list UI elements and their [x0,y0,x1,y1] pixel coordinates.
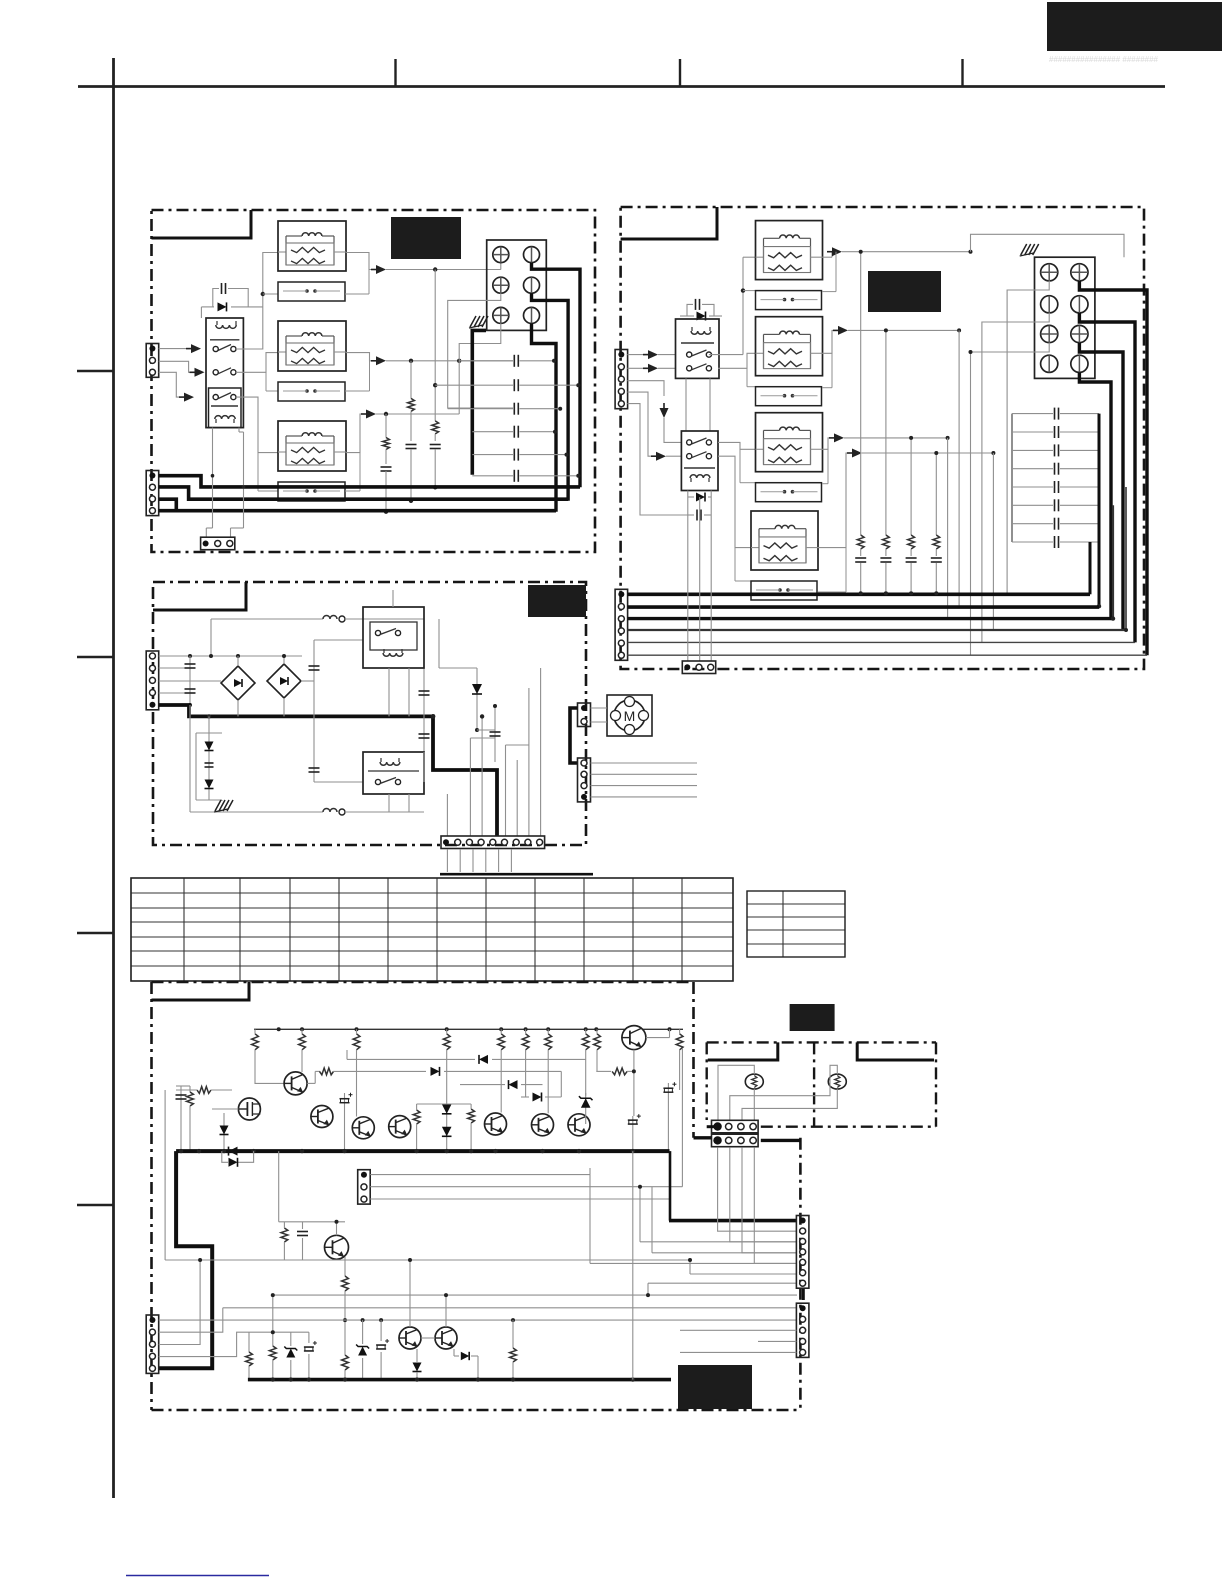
mid resistors [413,1110,420,1124]
relay RY-P2 box [363,752,424,794]
input network [197,1087,211,1094]
output diodes [416,1349,418,1362]
rail resistors [252,1034,259,1050]
thick AC feed [159,705,497,836]
speaker network A3 [278,421,346,471]
wire relay B1 to unit B1 [709,354,743,356]
wire out A3 [376,413,459,415]
strip connector CN-D2 [796,1303,809,1357]
relay RY-B1 cap loop [687,304,693,316]
row2 drop wires [718,1147,797,1231]
diode string left [196,732,222,734]
terminal A thick wire 2 [532,293,569,501]
relay RY-B1 diode [680,315,694,317]
wire B pin4 [627,392,652,456]
relay RY-A inner box [209,388,242,428]
thick link to row2 [694,1136,712,1139]
link box A2 [278,382,345,401]
elcap x668 [667,1083,669,1151]
wire unit B2 out [823,330,835,353]
wire B pin3 [627,381,664,396]
RC branch A x386 [385,414,387,438]
strip connector CN-D1 [796,1216,809,1289]
zener Q-bias [585,1093,587,1124]
relay RY-B2 coil [690,475,710,478]
diode P down [476,668,478,730]
arrow A3 [179,396,185,398]
arrow out A2 [371,360,377,362]
output stage transistors [399,1327,421,1349]
relay RY-B2 box [681,431,718,491]
block B bottom bus 6 [627,654,1147,656]
terminal B thick wires right [1079,281,1147,655]
block B bottom bus 1 [627,592,1090,596]
CN-C1 pin4 wire [159,1332,309,1356]
arrow B down [663,403,665,409]
wire unit A2 out [346,353,372,361]
amp label notch [152,982,250,1000]
relay P2 drops [388,794,390,812]
wire B pin1 [627,354,645,356]
bridge rectifier D-P2 [267,664,301,698]
connector CN-B1 [615,350,628,409]
block A label notch [152,210,252,238]
block B lower-left connector CN-B2 [615,589,628,660]
elcap x344 [344,1093,346,1151]
speaker network A2 [278,321,346,371]
arrow B3 [651,455,657,457]
speaker network B4 [751,511,818,570]
small transistors row [311,1106,333,1128]
relay B2 to bottom connector wires [687,515,689,661]
connector CN-A1 [146,344,159,378]
AC dashed box left [707,1041,936,1043]
block A bottom connector CN-A2 [146,471,159,516]
AC label bar 1 [708,1042,778,1060]
cap bank A [459,360,513,362]
CN-C1 pin3 wire [159,1260,200,1345]
rail stub x548 [547,1029,549,1034]
block B bottom bus 2 [627,605,1099,609]
link box B3 [756,483,822,502]
RC branches B [860,252,862,535]
top tick 1 [394,59,396,87]
connector CN-P3 [578,758,591,802]
relay RY-B1 switch 1 [687,352,692,357]
arrow out B1 [827,251,833,253]
rail stub x597 [596,1029,598,1034]
rail stub x501 [500,1029,502,1034]
caps mid x424 [423,619,425,752]
wire relay to unit A1 [236,253,278,350]
speaker terminal block B [1035,257,1095,378]
arrow out B2 [833,329,839,331]
block B dashed border [621,207,1144,669]
block B redaction box [868,271,941,312]
RC branch A x435 [434,270,436,421]
ground block A [470,316,476,327]
amp block dashed border [152,981,694,984]
strip link [802,1289,805,1300]
power ground [215,800,221,811]
page left border [112,58,115,1498]
link box B2 [756,387,822,406]
relay RY-A switch 1 [213,346,218,351]
relay RY-A coil [216,325,236,328]
mid connector CN-C2 [358,1170,371,1204]
wires to strip1 [640,1241,797,1243]
terminal B staircase wires left [971,234,1125,257]
thick wire A bottom 3 [159,499,556,511]
amp top rail [254,1028,683,1030]
bottom network components [248,1332,250,1352]
relay RY-B2 switch 1 [687,440,692,445]
arrow A2 [190,371,196,373]
right verticals [669,1038,671,1152]
cap bank B right rail [1098,414,1101,607]
wire unit A1 out [346,253,372,270]
clamp diodes input [223,1113,225,1151]
title block redaction [1047,2,1222,51]
block B bottom bus 5 [627,641,1135,643]
relay RY-A switch 2 [213,370,218,375]
diode pair mid [446,1104,448,1151]
motor wires [591,707,608,709]
long wire y1295 [273,1294,797,1296]
wire out A2 [386,360,513,362]
relay P1 drops [388,668,390,716]
cap P x495 [494,706,496,762]
lamp PL2 wires [730,1065,838,1121]
rail stub x356 [356,1029,358,1034]
AC connector row2 [712,1134,759,1147]
ground block B [1021,244,1027,255]
bias wire y1059 [347,1058,475,1060]
strip2 feed wires [680,1329,796,1331]
block B bus junctions [859,591,863,595]
motor M1 [607,695,652,736]
cap bank B [1012,413,1053,415]
rail stub x302 [301,1029,303,1034]
wire relay to unit A3 [236,397,278,453]
rail stub x679 [679,1029,681,1034]
thick motor return [570,708,578,763]
wire unit B4 out [818,453,848,548]
thick ground return [159,1151,213,1368]
cap bank B left rail [1011,414,1013,542]
wire out B4 [862,452,993,454]
left tick 3 [77,932,114,934]
wire out B2 [848,329,959,331]
rail stub x585 [585,1029,587,1034]
antiparallel diodes on rail [229,1147,238,1156]
wire unit A3 out [346,414,362,453]
diode y1097 [521,1096,529,1098]
terminal A thick wire 1 [532,263,581,488]
output transistor Q17 [622,1026,646,1050]
relay RY-B2 switch 2 [687,454,692,459]
page top rule [78,85,1165,88]
CN-C1 pin2 wire [159,1308,223,1332]
arrow out A1 [371,269,377,271]
power block dashed border [153,582,586,845]
bottom connector CN-A3 [201,537,235,550]
AC connector row1 [712,1120,759,1133]
relay RY-A cap loop [213,289,219,307]
wire B pin5 [627,404,687,515]
wire A pin1 [159,348,189,350]
relay RY-A outer box [206,318,243,428]
lamp PL1 wires [718,1065,754,1121]
strip drop wires [446,849,448,872]
relay B1-B2 links [685,378,687,431]
arrow out B3 [829,437,835,439]
arrow out B4 [847,452,853,454]
block B bottom bus 3 [627,617,1113,620]
diode y1084 [460,1084,505,1086]
block A dashed border [152,210,596,552]
left tick 1 [77,370,114,372]
RC branch A x411 [410,361,412,399]
lamp PL1 [745,1074,763,1089]
svg-text:M: M [624,708,636,724]
block A redaction box [391,217,461,259]
bias wire y1071 [315,1070,320,1072]
relay riser wires [392,590,394,607]
relay RY-B1 box [676,319,720,378]
relay RY-A switch 3 [213,395,218,400]
speaker output thick [669,1151,672,1221]
amp ground rail [176,1149,669,1153]
wire out A1 [386,269,501,271]
wire A pin3 [159,372,181,397]
AC redaction box [790,1004,835,1031]
elcap x632 [632,1116,634,1151]
power input wires [159,655,302,657]
bottom redaction box [678,1365,752,1409]
terminal A thick wire 3 [532,323,557,511]
motor connector CN-P2 [578,703,591,727]
AC label bar 2 [857,1042,934,1060]
svg-text:################ ########: ################ ######## [1049,55,1159,64]
CN-C1 pin1 wire [159,1319,797,1321]
verticals to strip [446,794,448,836]
amp bottom rail [248,1378,671,1382]
bridge rectifier D-P1 [221,666,255,700]
table feeder bar [440,873,593,876]
relay RY-P1 box [363,607,424,668]
arrow B2 [643,367,649,369]
link box A1 [278,282,345,301]
footer link underline [126,1575,269,1577]
rail stub x525 [525,1029,527,1034]
fuse bottom [190,811,323,813]
arrow A1 [186,348,192,350]
left tick 2 [77,656,114,658]
CN-P3 tail wires [591,762,698,764]
wire out B1 [842,251,971,253]
bottom connector CN-B3 [682,661,715,674]
top tick 3 [961,59,963,87]
speaker network B1 [756,221,823,280]
power bottom strip CN-P4 [441,836,545,849]
link box A3 [278,482,345,501]
relay A bottom wires [212,428,214,528]
thick wire A bottom 2 [159,487,568,499]
wire unit B3 out [823,438,831,449]
amp left connector CN-C1 [146,1315,159,1373]
block B bottom bus 4 [627,629,1126,631]
wire A pin2 [159,361,192,372]
relay RY-B2 diode below [687,491,689,498]
speaker network B3 [756,413,823,472]
link box B1 [756,291,822,310]
speaker network A1 [278,221,346,271]
VAS stage [278,1151,280,1222]
wire relay B2 to unit B4 [718,456,751,547]
fuse top [211,618,323,620]
wire relay B2 to unit B3 [718,442,756,449]
wire relay to unit A2 [236,353,278,373]
thick wire A bottom 4 [159,509,177,513]
legend table [747,891,845,957]
input FET Q10 [238,1098,260,1120]
relay RY-B1 switch 2 [687,366,692,371]
connector CN-P1 [146,651,159,710]
arrow out A3 [361,413,367,415]
arrow B1 [643,354,649,356]
left tick 4 [77,1204,114,1206]
power redaction box [528,585,586,617]
relay RY-B2 cap below [687,497,689,515]
link box B4 [751,581,817,600]
lamp PL2 [828,1074,846,1089]
long wire y1307 [223,1307,797,1309]
wire relay B1 to unit B2 [718,353,756,368]
driver Q11 [284,1072,307,1095]
top tick 2 [679,59,681,87]
power label notch [153,582,246,610]
parts table [131,878,733,981]
speaker network B2 [756,317,823,376]
wire unit B1 out [823,256,833,258]
long wire y1260 [165,1259,690,1261]
VAS emitter chain [344,1257,346,1276]
relay RY-A diode [201,306,214,308]
wire out B3 [844,437,948,439]
caps mid x314 [313,640,315,782]
relay RY-A coil 2 [215,416,235,419]
rail stub x255 [254,1029,256,1034]
terminal A wiring left col [459,323,501,360]
speaker terminal block A [487,240,547,330]
wire B pin2 [627,367,645,369]
block B label notch [621,207,717,239]
CN-C2 wires [370,1174,590,1176]
thick wire A bottom 1 [159,476,580,487]
filter caps [189,656,191,705]
rail stub x446 [446,1029,448,1034]
thick ground drop A [472,330,486,474]
